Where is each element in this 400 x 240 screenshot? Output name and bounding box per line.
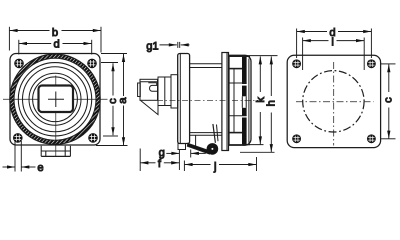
gland top lip [140,81,158,83]
ridge ring [222,53,229,151]
dimension f [140,149,179,172]
dimension k [246,56,278,145]
side-view flange plate [178,54,190,144]
latch arm [213,124,216,143]
dimension d (panel) [297,29,372,59]
sleeve top/bottom heavy edges [230,55,251,57]
gland rear block inner line [164,77,166,106]
sleeve grip tab edges [230,68,243,70]
screw bottom-right [88,133,98,143]
cable gland body [140,79,158,100]
panel screw bottom-left [292,134,301,143]
center cross [48,98,64,100]
dimension d (front) [19,40,92,55]
gland inner edge [157,82,159,96]
dimension e [3,141,36,172]
body inner circle [23,67,88,132]
dimension h [240,56,275,152]
ring inner circle [14,58,96,140]
dimension i [303,38,365,71]
svg-text:a: a [117,97,129,104]
screw top-right [87,59,97,69]
sleeve divider lines [230,82,247,84]
gland clip [148,83,157,92]
panel horizontal centerline [296,101,374,103]
dimension j [184,157,256,171]
inner circle 2 [33,77,78,122]
panel vertical centerline [333,62,335,146]
sleeve grip band [242,56,247,146]
svg-text:c: c [383,97,395,103]
body neck bottom [190,132,222,134]
latch mount line [195,135,197,146]
dimension c (front, vertical) [101,63,118,137]
sleeve rim line [248,59,250,143]
bottom keeper bracket [41,146,70,157]
svg-text:d: d [54,38,60,50]
front sleeve [229,55,251,145]
latch lever bar [187,143,210,154]
knurled ring (hatched annulus) [10,54,100,144]
svg-text:f: f [158,158,162,170]
sleeve band mid lines [241,96,243,108]
outer circle [10,54,100,144]
dimension c (panel, vertical) [381,64,396,139]
panel screw top-right [367,59,376,68]
front-view flange plate [10,54,100,146]
central socket opening [39,86,74,113]
body neck top [190,63,222,65]
middle centerline [157,99,258,101]
latch pivot [207,143,219,155]
sleeve silhouette line [233,69,235,133]
svg-text:b: b [52,27,58,39]
keeper under plate [178,144,186,150]
screw top-left [14,59,24,69]
gasket line [179,54,181,144]
svg-text:g: g [159,147,165,159]
svg-text:e: e [37,162,43,174]
svg-text:i: i [331,36,334,48]
dimension a (front, vertical overall) [96,54,128,146]
step block [171,75,178,108]
dimension b [9,27,101,53]
panel screw top-left [292,59,301,68]
inner circle 1 [29,73,81,125]
svg-text:h: h [266,100,278,106]
svg-text:g1: g1 [146,41,158,53]
vertical centerline [55,76,57,86]
cable gland left lip [138,83,141,97]
panel screw bottom-right [367,134,376,143]
panel cutout dashed circle [303,71,364,132]
gland lower flap [141,101,158,115]
panel plate (rear view) [287,55,380,147]
gland rear block [158,77,171,106]
horizontal centerline [3,98,38,100]
body circle [18,63,91,136]
svg-text:j: j [213,161,217,173]
screw bottom-left [13,133,23,143]
